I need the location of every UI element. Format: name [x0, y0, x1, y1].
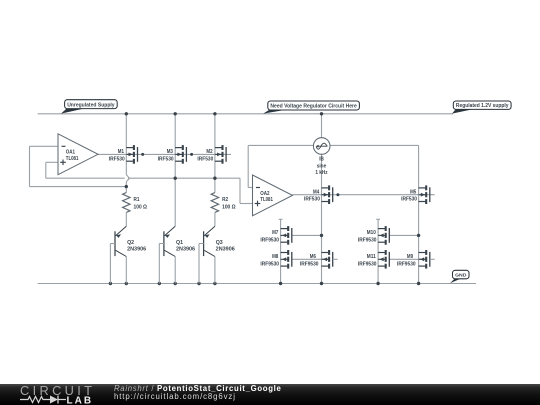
transistor M7 [281, 228, 289, 230]
wire: M1 drain/source column [125, 114, 127, 175]
svg-text:sine: sine [317, 163, 327, 169]
resistor R2 [211, 193, 218, 213]
wire: bottom ground rail [38, 283, 476, 285]
wire: M5 to M9 column [418, 145, 420, 283]
svg-text:TL081: TL081 [260, 197, 273, 203]
wire: M7/M8 column [280, 219, 282, 283]
node: top rail IB [320, 112, 323, 115]
svg-text:Need Voltage Regulator Circuit: Need Voltage Regulator Circuit Here [270, 104, 356, 110]
svg-text:M5: M5 [410, 190, 416, 196]
node: M3 source feedback [174, 177, 177, 180]
node label: Unregulated Supply [61, 107, 91, 114]
svg-text:M6: M6 [310, 254, 316, 260]
node: gate bus after M4 [336, 193, 339, 196]
svg-text:IRF9530: IRF9530 [260, 237, 279, 243]
svg-text:IRF9530: IRF9530 [358, 237, 377, 243]
svg-text:M8: M8 [272, 254, 278, 260]
wire: OA2 inverting feedback to M5 drain [248, 187, 252, 189]
node: rail Q2 collector [125, 282, 128, 285]
transistor M2 [215, 147, 223, 149]
svg-text:Unregulated Supply: Unregulated Supply [67, 102, 115, 108]
transistor Q3 [203, 231, 205, 256]
svg-text:IRF9530: IRF9530 [397, 261, 416, 267]
svg-text:IRF530: IRF530 [109, 156, 125, 162]
svg-text:M2: M2 [206, 149, 212, 155]
node: rail Q2 base [109, 282, 112, 285]
svg-text:M3: M3 [167, 149, 173, 155]
svg-text:OA1: OA1 [66, 150, 75, 156]
node: top rail M1 drain [125, 112, 128, 115]
svg-text:OA2: OA2 [260, 191, 269, 197]
wire: OA1 non-inverting input loop [46, 161, 58, 163]
svg-text:2N3906: 2N3906 [216, 247, 235, 253]
node: top rail M3 drain [174, 112, 177, 115]
node: rail M6 [320, 282, 323, 285]
svg-text:LAB: LAB [67, 396, 94, 405]
node: gate bus after M3 [190, 153, 193, 156]
wire: M7 gate wire [292, 234, 322, 236]
node: top rail M2 drain [213, 112, 216, 115]
wire: M10 gate wire [389, 234, 418, 236]
node: rail Q3 base [197, 282, 200, 285]
node: M1 source / R1 / OA1 inv [125, 185, 128, 188]
svg-text:Q1: Q1 [176, 240, 183, 246]
wire: R1 to Q2 emitter [125, 212, 127, 226]
svg-text:2N3906: 2N3906 [176, 247, 195, 253]
wire: M3 drain/source column [174, 114, 176, 227]
svg-text:100 Ω: 100 Ω [134, 204, 148, 210]
node: M7 gate on M4 column [320, 234, 323, 237]
transistor Q2 [114, 231, 116, 256]
svg-text:Q2: Q2 [127, 240, 134, 246]
svg-text:Regulated 1.2V supply: Regulated 1.2V supply [456, 103, 509, 109]
svg-text:1 kHz: 1 kHz [315, 170, 327, 176]
node: M2 source feedback [213, 177, 216, 180]
svg-text:100 Ω: 100 Ω [222, 204, 236, 210]
svg-text:IRF9530: IRF9530 [358, 261, 377, 267]
op-amp OA2 [253, 175, 293, 216]
wire: OA1 inverting input loop [30, 145, 59, 147]
wire: M11 gate wire [389, 258, 426, 260]
svg-text:M9: M9 [407, 254, 413, 260]
svg-text:GND: GND [455, 273, 467, 279]
wire: top supply rail [38, 113, 453, 115]
svg-text:IRF9530: IRF9530 [260, 261, 279, 267]
wire: M2 drain/source column [214, 114, 216, 193]
transistor M5 [419, 187, 427, 189]
svg-text:M7: M7 [272, 230, 278, 236]
node label: Need Voltage Regulator Circuit Here [263, 109, 294, 114]
resistor R1 [123, 193, 130, 213]
svg-text:R1: R1 [134, 197, 140, 203]
svg-text:IRF530: IRF530 [158, 156, 174, 162]
wire: M10/M11 column [377, 219, 379, 283]
svg-text:M11: M11 [367, 254, 376, 260]
CircuitLab logo [20, 385, 98, 405]
svg-text:Q3: Q3 [216, 240, 223, 246]
node: gate bus after M1 [141, 153, 144, 156]
transistor M3 [175, 147, 183, 149]
svg-text:2N3906: 2N3906 [127, 247, 146, 253]
wire: R2 to Q3 emitter [214, 212, 216, 226]
transistor M1 [126, 147, 134, 149]
wire: OA2 output gate bus [293, 194, 435, 196]
svg-text:IRF530: IRF530 [401, 197, 417, 203]
svg-text:R2: R2 [222, 197, 228, 203]
svg-text:IRF530: IRF530 [197, 156, 213, 162]
svg-text:TL081: TL081 [66, 156, 79, 162]
node: rail M11 source [376, 282, 379, 285]
transistor M8 [281, 252, 289, 254]
svg-text:M10: M10 [367, 230, 376, 236]
node: rail M9 [417, 282, 420, 285]
op-amp OA1 [58, 134, 98, 175]
transistor Q1 [163, 231, 165, 256]
svg-text:IB: IB [319, 157, 324, 163]
transistor M11 [378, 252, 386, 254]
transistor M9 [419, 252, 427, 254]
svg-text:M4: M4 [313, 190, 319, 196]
node: rail Q3 collector [213, 282, 216, 285]
transistor M6 [322, 252, 330, 254]
node label: Regulated 1.2V supply [452, 108, 479, 114]
wire: IB to M4 to M6 column [321, 114, 323, 138]
node: rail Q1 base [158, 282, 161, 285]
node label: GND [450, 277, 464, 283]
wire: feedback bus to OA2 non-inverting input [215, 177, 240, 179]
transistor M4 [322, 187, 330, 189]
wire: M8 gate wire [292, 258, 329, 260]
transistor M10 [378, 228, 386, 230]
node: rail M8 source [279, 282, 282, 285]
node: M10 gate on M5 column [417, 234, 420, 237]
wire: OA1 output gate bus [98, 153, 231, 155]
svg-text:M1: M1 [118, 149, 124, 155]
svg-text:IRF530: IRF530 [304, 197, 320, 203]
svg-text:IRF9530: IRF9530 [300, 261, 319, 267]
node: rail Q1 collector [174, 282, 177, 285]
current source IB [313, 138, 330, 155]
